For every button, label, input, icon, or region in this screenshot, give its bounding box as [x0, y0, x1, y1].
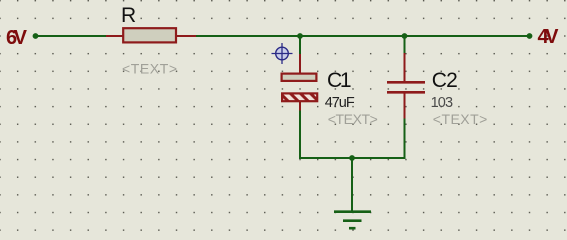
svg-text:47uF: 47uF [325, 95, 355, 111]
svg-text:<TEXT>: <TEXT> [328, 111, 378, 127]
svg-text:6V: 6V [6, 27, 28, 49]
svg-text:<TEXT>: <TEXT> [122, 61, 177, 77]
svg-text:103: 103 [431, 95, 454, 111]
svg-text:<TEXT>: <TEXT> [433, 111, 488, 127]
svg-text:R: R [121, 4, 136, 27]
svg-text:4V: 4V [538, 26, 560, 48]
svg-text:C1: C1 [327, 69, 352, 92]
svg-text:C2: C2 [432, 69, 458, 92]
